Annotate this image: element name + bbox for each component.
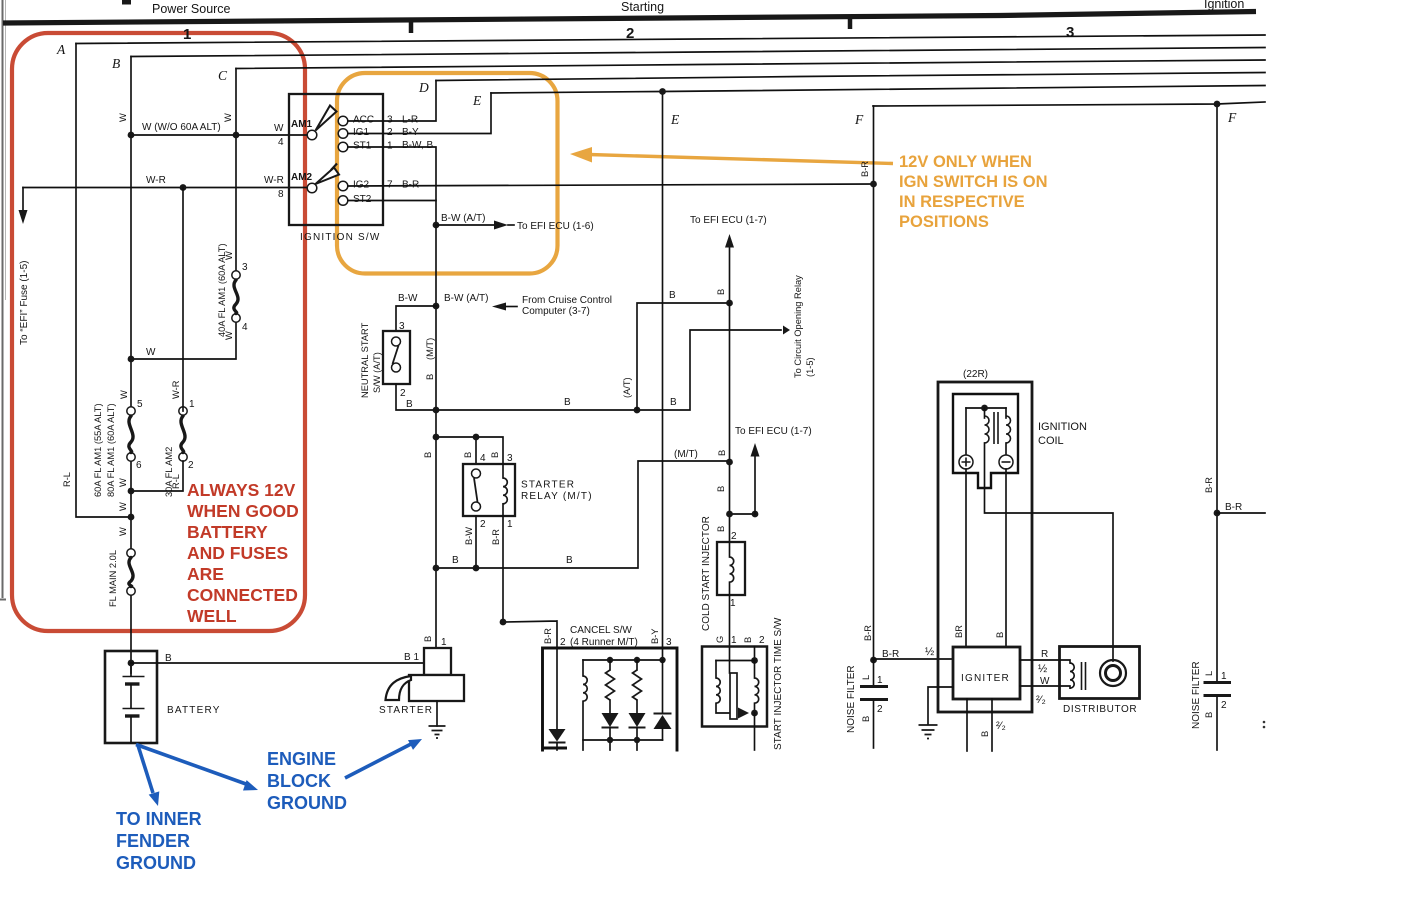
- cancel pin2 diode: [556, 648, 558, 729]
- arrow From Cruise Control: [492, 303, 506, 311]
- svg-text:W: W: [146, 347, 156, 358]
- B wire coil to igniter: [1005, 469, 1007, 647]
- svg-text:²⁄₂: ²⁄₂: [996, 720, 1006, 732]
- svg-text:W: W: [224, 251, 234, 260]
- svg-text:B: B: [716, 486, 726, 492]
- svg-text:FENDER: FENDER: [116, 831, 190, 851]
- svg-text:3: 3: [666, 637, 672, 648]
- cancel switch box: [543, 747, 568, 750]
- distributor core bars: [1082, 662, 1086, 690]
- svg-text:(M/T): (M/T): [674, 449, 698, 460]
- svg-text:IG1: IG1: [353, 127, 370, 138]
- svg-text:B-Y: B-Y: [402, 127, 419, 138]
- junction dot: [128, 488, 135, 495]
- fusible link 60A/80A FL AM1: [127, 407, 135, 415]
- igniter bottom wire 1: [966, 699, 968, 751]
- svg-text:A: A: [56, 42, 66, 57]
- svg-text:To EFI ECU (1-7): To EFI ECU (1-7): [735, 426, 812, 437]
- time switch top rail: [716, 660, 755, 662]
- blue arrow to engine block ground text: [136, 745, 246, 785]
- junction dot B-W A/T: [433, 222, 440, 229]
- svg-text:B: B: [743, 637, 753, 643]
- svg-text:IN RESPECTIVE: IN RESPECTIVE: [899, 193, 1025, 211]
- distributor rotor: [1100, 660, 1126, 686]
- svg-text:1: 1: [183, 26, 191, 43]
- svg-text:B-W: B-W: [398, 293, 418, 304]
- svg-text:W: W: [118, 113, 128, 122]
- svg-text:12V ONLY WHEN: 12V ONLY WHEN: [899, 153, 1032, 171]
- arrow To Circuit Opening Relay: [783, 326, 790, 335]
- coil plus branch: [965, 408, 967, 455]
- noise filter right column: [1216, 104, 1218, 682]
- cancel diode 2: [629, 713, 646, 727]
- bus line C: [236, 60, 1265, 69]
- bus line A: [76, 35, 1265, 44]
- junction dot F B-R: [870, 181, 877, 188]
- junction dot: [500, 619, 507, 626]
- svg-text:To EFI ECU (1-6): To EFI ECU (1-6): [517, 221, 594, 232]
- svg-text:3: 3: [399, 321, 405, 332]
- battery internal plates: [123, 676, 145, 678]
- EFI column main: [729, 303, 731, 542]
- relay switch circles: [472, 469, 481, 478]
- svg-text:4: 4: [480, 453, 486, 464]
- svg-text:B: B: [669, 290, 676, 301]
- svg-text:(A/T): (A/T): [622, 377, 632, 398]
- junction dot: [433, 434, 440, 441]
- time switch right coil: [754, 661, 756, 679]
- AM2 blade: [316, 168, 340, 185]
- igniter ground wire: [928, 687, 953, 724]
- svg-text:NOISE FILTER: NOISE FILTER: [1191, 661, 1202, 729]
- svg-text:B: B: [463, 452, 473, 458]
- svg-text:To Circuit Opening Relay: To Circuit Opening Relay: [793, 275, 803, 378]
- arrow To EFI ECU (1-6): [436, 224, 494, 226]
- svg-text:B: B: [1204, 712, 1214, 718]
- svg-text:BR: BR: [954, 625, 964, 638]
- wire IG1 to bus E: [348, 93, 491, 134]
- wire B-W row to neutral switch: [396, 306, 436, 331]
- svg-text:W: W: [118, 478, 128, 487]
- svg-text:D: D: [418, 80, 429, 95]
- junction dot battery: [128, 660, 135, 667]
- wire A/T branch up: [637, 303, 730, 410]
- svg-text:8: 8: [278, 189, 284, 200]
- junction dot right: [1214, 510, 1221, 517]
- cold start injector box: [717, 542, 745, 595]
- svg-text:B: B: [861, 716, 871, 722]
- svg-text:STARTER: STARTER: [379, 705, 433, 716]
- junction dot: [473, 565, 480, 572]
- neutral start switch box: [383, 331, 410, 384]
- svg-text:E: E: [670, 112, 680, 127]
- svg-text:B-Y: B-Y: [650, 629, 660, 645]
- wire cancel pin2 branch: [503, 621, 557, 648]
- contact IG2 circle: [338, 181, 348, 191]
- svg-text:W: W: [224, 331, 234, 340]
- blue arrow to inner fender: [138, 746, 153, 794]
- svg-text:WHEN GOOD: WHEN GOOD: [187, 501, 299, 521]
- svg-text:5: 5: [137, 399, 143, 410]
- cancel inner top rail: [583, 659, 663, 661]
- wire battery to starter: [131, 662, 424, 664]
- svg-text:L-R: L-R: [402, 115, 418, 126]
- contact ACC circle: [338, 116, 348, 126]
- svg-text:ST1: ST1: [353, 141, 372, 152]
- minus terminal: [999, 455, 1013, 469]
- ignition coil U1 inner box: [953, 394, 1018, 488]
- wire row W-R to AM2: [23, 187, 307, 189]
- speckle colon: [1263, 721, 1266, 724]
- junction dot: [473, 434, 480, 441]
- junction dot: [128, 132, 135, 139]
- wire right stub: [1217, 512, 1265, 514]
- wire ST1 down: [348, 147, 436, 225]
- orange highlight box: [337, 73, 558, 274]
- wire row W (W/O 60A ALT): [131, 134, 307, 136]
- core bars: [994, 412, 998, 444]
- wire to start injector time switch: [729, 595, 731, 673]
- svg-text:B: B: [670, 397, 677, 408]
- svg-text:B: B: [980, 731, 990, 737]
- svg-text:FL MAIN 2.0L: FL MAIN 2.0L: [108, 550, 118, 607]
- coil top bar: [966, 407, 1006, 409]
- svg-text:(4 Runner M/T): (4 Runner M/T): [570, 637, 638, 648]
- svg-text:2: 2: [387, 127, 393, 138]
- bus line E: [491, 86, 1265, 94]
- svg-text:STARTER: STARTER: [521, 480, 575, 491]
- svg-text:IGNITION: IGNITION: [1038, 421, 1087, 433]
- svg-text:B-R: B-R: [1225, 502, 1242, 513]
- svg-text:2: 2: [560, 637, 566, 648]
- cancel diode 1: [602, 713, 619, 727]
- svg-text:L: L: [1204, 671, 1214, 676]
- svg-text:IGNITER: IGNITER: [961, 673, 1010, 684]
- svg-text:1: 1: [507, 519, 513, 530]
- svg-text:GROUND: GROUND: [116, 853, 196, 873]
- coil minus branch: [1005, 408, 1007, 418]
- svg-text:2: 2: [400, 388, 406, 399]
- svg-text:IGNITION S/W: IGNITION S/W: [300, 232, 381, 243]
- svg-text:3: 3: [1066, 24, 1074, 41]
- AM2 pin circle: [307, 183, 317, 193]
- red highlight box: [12, 33, 305, 631]
- svg-text:1: 1: [1221, 671, 1227, 682]
- time switch bimetal strip: [730, 673, 737, 719]
- svg-text:BATTERY: BATTERY: [167, 705, 221, 716]
- junction dot: [433, 565, 440, 572]
- svg-text:B: B: [490, 452, 500, 458]
- svg-text:60A FL AM1 (55A ALT): 60A FL AM1 (55A ALT): [93, 403, 103, 497]
- cancel coil: [582, 660, 584, 676]
- svg-text:B-R: B-R: [860, 161, 870, 177]
- ignition switch box: [289, 94, 383, 225]
- secondary winding: [1006, 416, 1011, 443]
- AM1 pin circle: [307, 130, 317, 140]
- svg-text:B: B: [425, 374, 435, 380]
- svg-text:Computer (3-7): Computer (3-7): [522, 306, 590, 317]
- wire ACC to bus D: [348, 81, 436, 122]
- distributor box: [1060, 647, 1140, 699]
- header tick 2: [848, 17, 853, 29]
- wire net C vertical: [131, 69, 236, 360]
- header tick 1: [409, 21, 414, 33]
- blue arrow to starter ground: [345, 744, 411, 778]
- page edge scan line: [0, 0, 6, 600]
- wire neutral pin2 to B row: [396, 330, 781, 410]
- svg-text:B-R: B-R: [1204, 477, 1214, 493]
- igniter bottom wire 2: [991, 699, 993, 751]
- cut-off glyph top edge: [122, 0, 131, 5]
- svg-text:6: 6: [136, 460, 142, 471]
- svg-text:F: F: [854, 112, 864, 127]
- svg-text:DISTRIBUTOR: DISTRIBUTOR: [1063, 704, 1137, 715]
- svg-text:E: E: [472, 93, 482, 108]
- ground symbol igniter: [919, 725, 938, 739]
- junction dot: [634, 407, 641, 414]
- svg-text:ACC: ACC: [353, 115, 374, 126]
- junction dot E bus: [659, 88, 666, 95]
- starter solenoid box: [424, 648, 451, 675]
- svg-text:ENGINE: ENGINE: [267, 749, 336, 769]
- svg-text:AM1: AM1: [291, 119, 313, 130]
- F column wire: [873, 106, 875, 660]
- svg-text:BLOCK: BLOCK: [267, 771, 331, 791]
- igniter W wire: [1020, 685, 1060, 687]
- svg-text:1: 1: [877, 675, 883, 686]
- svg-text:IG2: IG2: [353, 180, 370, 191]
- relay coil: [502, 464, 504, 478]
- wire relay pin1 down to cancel: [502, 516, 504, 622]
- svg-text:2: 2: [188, 460, 194, 471]
- wire IG2 B-R long row: [348, 184, 874, 186]
- svg-text:R: R: [1041, 649, 1048, 660]
- svg-text:½: ½: [925, 646, 934, 658]
- svg-text:½: ½: [1038, 663, 1047, 675]
- relay blade: [474, 478, 478, 502]
- svg-text:B 1: B 1: [404, 652, 419, 663]
- svg-text:B-W (A/T): B-W (A/T): [441, 213, 485, 224]
- 22R outer box: [938, 382, 1032, 712]
- svg-text:²⁄₂: ²⁄₂: [1036, 694, 1046, 706]
- svg-text:3: 3: [507, 453, 513, 464]
- svg-text:Power Source: Power Source: [152, 2, 231, 16]
- svg-text:(M/T): (M/T): [425, 338, 435, 360]
- svg-text:B-W: B-W: [464, 527, 474, 545]
- bus line D: [436, 73, 1265, 81]
- svg-text:B: B: [566, 555, 573, 566]
- svg-text:B: B: [717, 450, 727, 456]
- wire E column B-Y: [662, 92, 664, 661]
- cancel resistor 1: [609, 660, 611, 670]
- plus terminal: [959, 455, 973, 469]
- time switch left coil: [715, 661, 717, 679]
- primary winding: [984, 408, 986, 418]
- svg-text:(22R): (22R): [963, 369, 988, 380]
- svg-text:1: 1: [441, 637, 447, 648]
- svg-text:To EFI ECU (1-7): To EFI ECU (1-7): [690, 215, 767, 226]
- wire net A / R-L vertical: [76, 44, 131, 518]
- BR wire coil to igniter: [965, 469, 967, 647]
- svg-text:G: G: [715, 636, 725, 643]
- high tension lead: [985, 443, 1114, 661]
- svg-text:From Cruise Control: From Cruise Control: [522, 295, 612, 306]
- svg-text:TO INNER: TO INNER: [116, 809, 202, 829]
- wire ST2 stub: [348, 200, 436, 202]
- svg-text:2: 2: [731, 531, 737, 542]
- svg-text:CONNECTED: CONNECTED: [187, 585, 298, 605]
- svg-text:4: 4: [278, 137, 284, 148]
- contact ST1 circle: [338, 142, 348, 152]
- svg-text:B: B: [716, 289, 726, 295]
- svg-text:1: 1: [387, 141, 393, 152]
- svg-text:B-W (A/T): B-W (A/T): [444, 293, 488, 304]
- contact IG1 circle: [338, 129, 348, 139]
- junction dot coil: [981, 405, 988, 412]
- junction dot: [233, 132, 240, 139]
- svg-text:BATTERY: BATTERY: [187, 522, 268, 542]
- svg-text:WELL: WELL: [187, 606, 237, 626]
- noise filter capacitor right: [1204, 681, 1232, 684]
- svg-text:R-L: R-L: [171, 474, 181, 489]
- svg-text:B: B: [423, 636, 433, 642]
- svg-text:80A FL AM1 (60A ALT): 80A FL AM1 (60A ALT): [106, 403, 116, 497]
- junction dot: [128, 356, 135, 363]
- svg-text:2: 2: [480, 519, 486, 530]
- svg-text:B-R: B-R: [543, 628, 553, 644]
- svg-text:RELAY (M/T): RELAY (M/T): [521, 491, 593, 502]
- svg-text:1: 1: [189, 399, 195, 410]
- svg-text:3: 3: [387, 115, 393, 126]
- time switch contact: [738, 708, 749, 719]
- svg-text:POSITIONS: POSITIONS: [899, 213, 989, 231]
- svg-text:B: B: [716, 526, 726, 532]
- svg-text:B: B: [112, 56, 120, 71]
- svg-text:B: B: [452, 555, 459, 566]
- time switch pin2 wire: [754, 647, 756, 661]
- arrow to EFI fuse: [22, 188, 24, 211]
- svg-text:1: 1: [731, 635, 737, 646]
- wire relay top row: [436, 437, 503, 464]
- header thick divider bar: [3, 12, 1256, 24]
- junction dot: [433, 303, 440, 310]
- start injector time switch box: [702, 647, 767, 727]
- EFI column arrow 1 To EFI ECU (1-7): [729, 247, 731, 303]
- wire 30A link to B line: [131, 188, 183, 492]
- noise filter capacitor left: [873, 660, 875, 685]
- svg-text:2: 2: [877, 704, 883, 715]
- svg-text:ARE: ARE: [187, 564, 224, 584]
- svg-text:S/W (A/T): S/W (A/T): [372, 352, 382, 393]
- svg-text:B: B: [995, 632, 1005, 638]
- junction dots bottom rail: [607, 737, 613, 743]
- svg-text:W: W: [118, 527, 128, 536]
- svg-text:F: F: [1227, 110, 1237, 125]
- svg-text:B-W, B: B-W, B: [402, 140, 433, 151]
- svg-text:R-L: R-L: [62, 472, 72, 487]
- svg-text:B: B: [564, 397, 571, 408]
- cancel bottom rail: [583, 740, 663, 750]
- ground symbol starter: [429, 726, 446, 738]
- svg-text:W (W/O 60A ALT): W (W/O 60A ALT): [142, 122, 221, 133]
- starter motor box: [409, 675, 464, 701]
- svg-text:B-R: B-R: [491, 529, 501, 545]
- battery box: [105, 651, 157, 743]
- wire net B vertical: [130, 57, 132, 674]
- junction dot: [180, 184, 187, 191]
- starter nose wedge: [386, 676, 412, 700]
- fusible link 40A FL AM1 (60A ALT): [232, 271, 240, 279]
- svg-text:NOISE FILTER: NOISE FILTER: [846, 665, 857, 733]
- svg-text:IGN SWITCH IS ON: IGN SWITCH IS ON: [899, 173, 1048, 191]
- neutral switch pin 3 circle: [392, 337, 401, 346]
- svg-text:W-R: W-R: [146, 175, 166, 186]
- svg-text:W-R: W-R: [264, 175, 284, 186]
- neutral switch blade: [393, 346, 399, 365]
- cancel diode 3 reversed: [662, 660, 664, 713]
- junction dot: [128, 514, 135, 521]
- AM1 blade: [316, 106, 337, 131]
- fusible link 30A FL AM2: [179, 407, 187, 415]
- svg-text:COLD START INJECTOR: COLD START INJECTOR: [701, 516, 712, 631]
- junction dot: [433, 407, 440, 414]
- main column ST wire: [435, 225, 437, 648]
- junction dot: [726, 459, 733, 466]
- svg-text:CANCEL S/W: CANCEL S/W: [570, 625, 632, 636]
- svg-text:ALWAYS 12V: ALWAYS 12V: [187, 480, 296, 500]
- svg-text:(1-5): (1-5): [805, 357, 815, 377]
- svg-text:L: L: [861, 675, 871, 680]
- distributor pickup coil: [1060, 660, 1071, 663]
- fusible link FL MAIN 2.0L: [127, 549, 135, 557]
- junction dot noise filter left: [870, 657, 877, 664]
- time switch pin2 下 wire: [754, 713, 756, 750]
- svg-text:3: 3: [242, 262, 248, 273]
- bus line F: [873, 102, 1265, 106]
- svg-text:1: 1: [730, 598, 736, 609]
- junction dot F right: [1214, 101, 1221, 108]
- svg-text:GROUND: GROUND: [267, 793, 347, 813]
- svg-text:ST2: ST2: [353, 194, 372, 205]
- svg-text:AM2: AM2: [291, 172, 313, 183]
- bus line B: [131, 48, 1265, 57]
- svg-text:W: W: [223, 113, 233, 122]
- svg-text:B: B: [423, 452, 433, 458]
- neutral switch pin 2 circle: [392, 363, 401, 372]
- igniter R wire: [1020, 659, 1060, 661]
- wire relay pin2 down: [475, 516, 477, 568]
- igniter box: [953, 647, 1020, 699]
- contact ST2 circle: [338, 196, 348, 206]
- wire relay bottom B row M/T branch: [436, 461, 730, 568]
- svg-text:W-R: W-R: [171, 380, 181, 399]
- svg-text:B-R: B-R: [863, 625, 873, 641]
- svg-text:2: 2: [759, 635, 765, 646]
- svg-text:COIL: COIL: [1038, 435, 1064, 447]
- svg-text:Starting: Starting: [621, 0, 664, 14]
- svg-text:AND FUSES: AND FUSES: [187, 543, 288, 563]
- orange arrow: [589, 155, 893, 164]
- svg-text:W: W: [118, 502, 128, 511]
- svg-text:7: 7: [387, 180, 393, 191]
- svg-text:4: 4: [242, 322, 248, 333]
- cold start injector coil: [729, 542, 731, 557]
- junction dot: [726, 300, 733, 307]
- svg-text:START INJECTOR TIME S/W: START INJECTOR TIME S/W: [773, 617, 784, 750]
- svg-text:C: C: [218, 68, 228, 83]
- svg-text:W: W: [119, 390, 129, 399]
- svg-text:NEUTRAL START: NEUTRAL START: [360, 322, 370, 398]
